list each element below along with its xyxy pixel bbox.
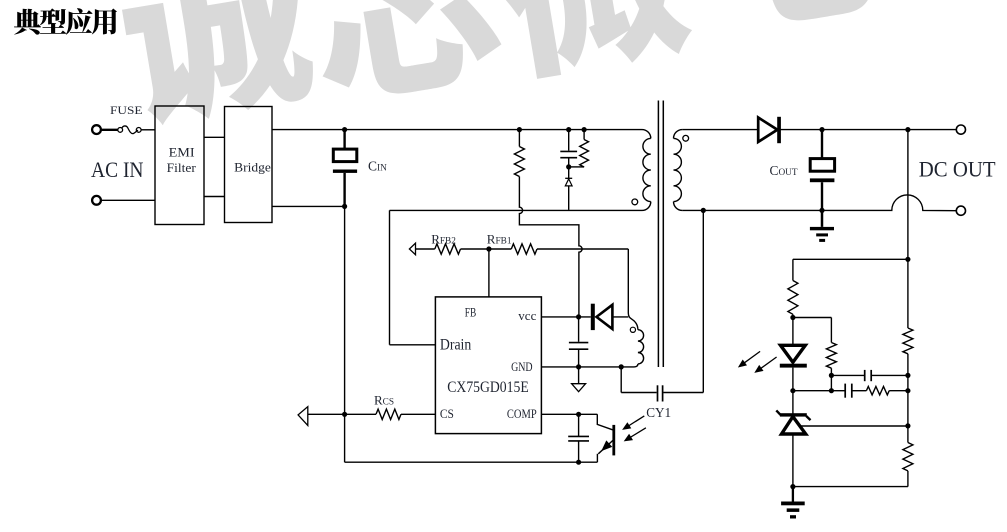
wire right rail mid — [907, 375, 909, 442]
pin GND — [511, 360, 532, 374]
svg-text:CS: CS — [440, 407, 454, 421]
junction COUT top — [819, 127, 824, 132]
arrows optocoupler light input — [622, 416, 646, 442]
junction COUT bottom — [819, 208, 824, 213]
svg-text:RFB2: RFB2 — [431, 232, 456, 247]
wire drain rail — [390, 210, 643, 344]
polarity dot aux — [630, 327, 635, 332]
svg-text:CX75GD015E: CX75GD015E — [447, 379, 528, 396]
transformer T1 primary winding — [642, 138, 651, 210]
transformer T1 core — [658, 101, 663, 368]
junction led cathode — [790, 388, 795, 393]
svg-text:CIN: CIN — [368, 158, 387, 173]
wire EMI-Bridge bottom — [204, 196, 225, 198]
junction gnd-CS — [342, 412, 347, 417]
pin vcc — [518, 308, 536, 323]
junction startup top — [517, 127, 522, 132]
arrow RFB2 return — [409, 243, 434, 255]
junction vcc node — [576, 314, 581, 319]
wire secondary bottom rail — [682, 195, 956, 211]
resistor startup — [514, 130, 524, 177]
resistor bias — [826, 343, 836, 376]
title 典型应用 — [14, 8, 117, 34]
label AC IN — [91, 157, 144, 182]
wire AC top to fuse — [101, 129, 117, 131]
capacitor clamp — [560, 130, 577, 167]
capacitor comp — [568, 414, 589, 462]
junction DC top branch — [905, 127, 910, 132]
svg-text:AC IN: AC IN — [91, 157, 144, 182]
junction RC top right — [905, 373, 910, 378]
wire drain to IC — [390, 344, 436, 346]
svg-text:Drain: Drain — [440, 337, 472, 354]
wire COMP pin — [541, 413, 597, 415]
wire gnd to CY1 — [621, 367, 656, 393]
capacitor CIN — [333, 130, 357, 207]
label RFB2 — [431, 232, 456, 247]
pin FB — [465, 306, 477, 320]
wire DC to FB rail — [907, 130, 909, 260]
diode clamp D2 — [565, 167, 572, 210]
capacitor comp top — [865, 370, 872, 381]
junction ref right — [905, 423, 910, 428]
transformer T1 aux winding — [628, 313, 643, 367]
label CX75GD015E — [447, 379, 528, 396]
diode LED optocoupler — [780, 345, 807, 367]
wire primary gnd bottom — [345, 461, 598, 463]
junction sec bottom left — [701, 208, 706, 213]
wire led cathode — [792, 368, 794, 414]
wire FB bottom link — [793, 486, 908, 488]
junction clamp res top — [582, 127, 587, 132]
terminal DC OUT plus — [956, 125, 965, 134]
wire FB top link — [793, 258, 908, 260]
pin CS — [440, 407, 454, 421]
wire AC bottom to EMI — [101, 199, 155, 201]
wire bias to lower — [830, 375, 832, 390]
label RCS — [374, 393, 394, 408]
resistor RFB1 — [511, 244, 537, 254]
junction FB gnd — [790, 484, 795, 489]
wire FB node to divider — [461, 248, 512, 250]
arrow CS return — [298, 407, 376, 426]
svg-text:RCS: RCS — [374, 393, 394, 408]
wire RCS to CS pin — [401, 413, 435, 415]
wire CY1 to secondary — [663, 210, 703, 392]
resistor comp lower — [866, 387, 908, 395]
label FUSE — [110, 104, 143, 117]
svg-text:FB: FB — [465, 306, 477, 320]
wire diode to aux — [612, 316, 628, 318]
terminal AC neutral — [92, 196, 101, 205]
label DC OUT — [919, 156, 996, 181]
capacitor comp lower — [831, 384, 866, 398]
pin Drain — [440, 337, 472, 354]
junction aux gnd — [619, 364, 624, 369]
junction FB node — [486, 246, 491, 251]
junction CIN top — [342, 127, 347, 132]
capacitor COUT — [810, 130, 835, 211]
wire led to comp branch — [793, 390, 832, 392]
wire FB pin — [488, 249, 490, 297]
junction bias bottom — [829, 373, 834, 378]
wire clamp join — [569, 166, 584, 168]
resistor RFB2 — [435, 244, 461, 254]
svg-text:RFB1: RFB1 — [487, 232, 512, 247]
wire EMI-Bridge top — [204, 136, 225, 138]
arrows LED light output — [738, 351, 777, 373]
label COUT — [770, 163, 798, 178]
svg-text:Bridge: Bridge — [234, 160, 271, 174]
wire startup with hops — [519, 177, 582, 317]
ground secondary — [810, 210, 834, 242]
wire GND pin — [541, 366, 629, 368]
svg-text:CY1: CY1 — [646, 405, 671, 420]
polarity dot secondary — [683, 135, 689, 141]
wire bulk positive rail — [272, 130, 651, 139]
svg-text:GND: GND — [511, 360, 532, 374]
pin COMP — [507, 407, 537, 421]
ground feedback — [781, 487, 805, 519]
svg-text:DC OUT: DC OUT — [919, 156, 996, 181]
svg-text:vcc: vcc — [518, 308, 536, 323]
svg-text:Filter: Filter — [167, 161, 197, 175]
junction clamp cap top — [566, 127, 571, 132]
diode vcc D3 — [591, 304, 613, 330]
junction FB top — [905, 257, 910, 262]
polarity dot primary — [632, 199, 638, 205]
block Bridge — [225, 107, 273, 223]
wire primary gnd vertical — [344, 206, 346, 462]
junction comp branch — [829, 388, 834, 393]
terminal AC line — [92, 125, 101, 134]
svg-text:COUT: COUT — [770, 163, 798, 178]
label CIN — [368, 158, 387, 173]
junction LED top — [790, 315, 795, 320]
wire RFB1 to aux node — [537, 249, 628, 313]
resistor FB lower right — [903, 443, 913, 487]
junction comp cap bottom — [576, 460, 581, 465]
terminal DC OUT minus — [956, 206, 965, 215]
resistor clamp — [580, 130, 589, 167]
junction CIN bottom — [342, 204, 347, 209]
wire bridge to CIN bottom — [272, 205, 345, 207]
wire fuse to EMI — [141, 129, 155, 131]
wire secondary top rail — [682, 129, 956, 131]
label CY1 — [646, 405, 671, 420]
wire vcc pin — [541, 316, 590, 318]
transistor Q1 optocoupler output — [597, 414, 615, 462]
op-amp U1 CX75GD015E — [435, 297, 541, 434]
wire TL431 ref — [801, 425, 908, 427]
regulator U2 TL431 — [776, 410, 810, 486]
wire comp top branch — [831, 374, 908, 376]
transformer T1 secondary winding — [674, 130, 683, 211]
resistor RCS — [376, 409, 401, 419]
svg-text:EMI: EMI — [169, 145, 195, 159]
junction clamp node — [566, 164, 571, 169]
ground primary return — [572, 367, 586, 392]
capacitor CY1 — [658, 385, 663, 401]
label RFB1 — [487, 232, 512, 247]
svg-text:FUSE: FUSE — [110, 104, 143, 117]
junction gnd node — [576, 364, 581, 369]
block EMI Filter — [155, 106, 204, 225]
wire led node down — [792, 318, 794, 346]
diode output D1 — [758, 117, 781, 143]
resistor FB upper left — [788, 259, 798, 317]
junction RC bottom right — [905, 388, 910, 393]
capacitor vcc bypass — [569, 317, 588, 367]
wire bias branch — [793, 318, 832, 343]
junction comp node — [576, 412, 581, 417]
fuse FUSE — [118, 126, 141, 134]
svg-text:COMP: COMP — [507, 407, 537, 421]
resistor FB upper right — [903, 259, 913, 375]
